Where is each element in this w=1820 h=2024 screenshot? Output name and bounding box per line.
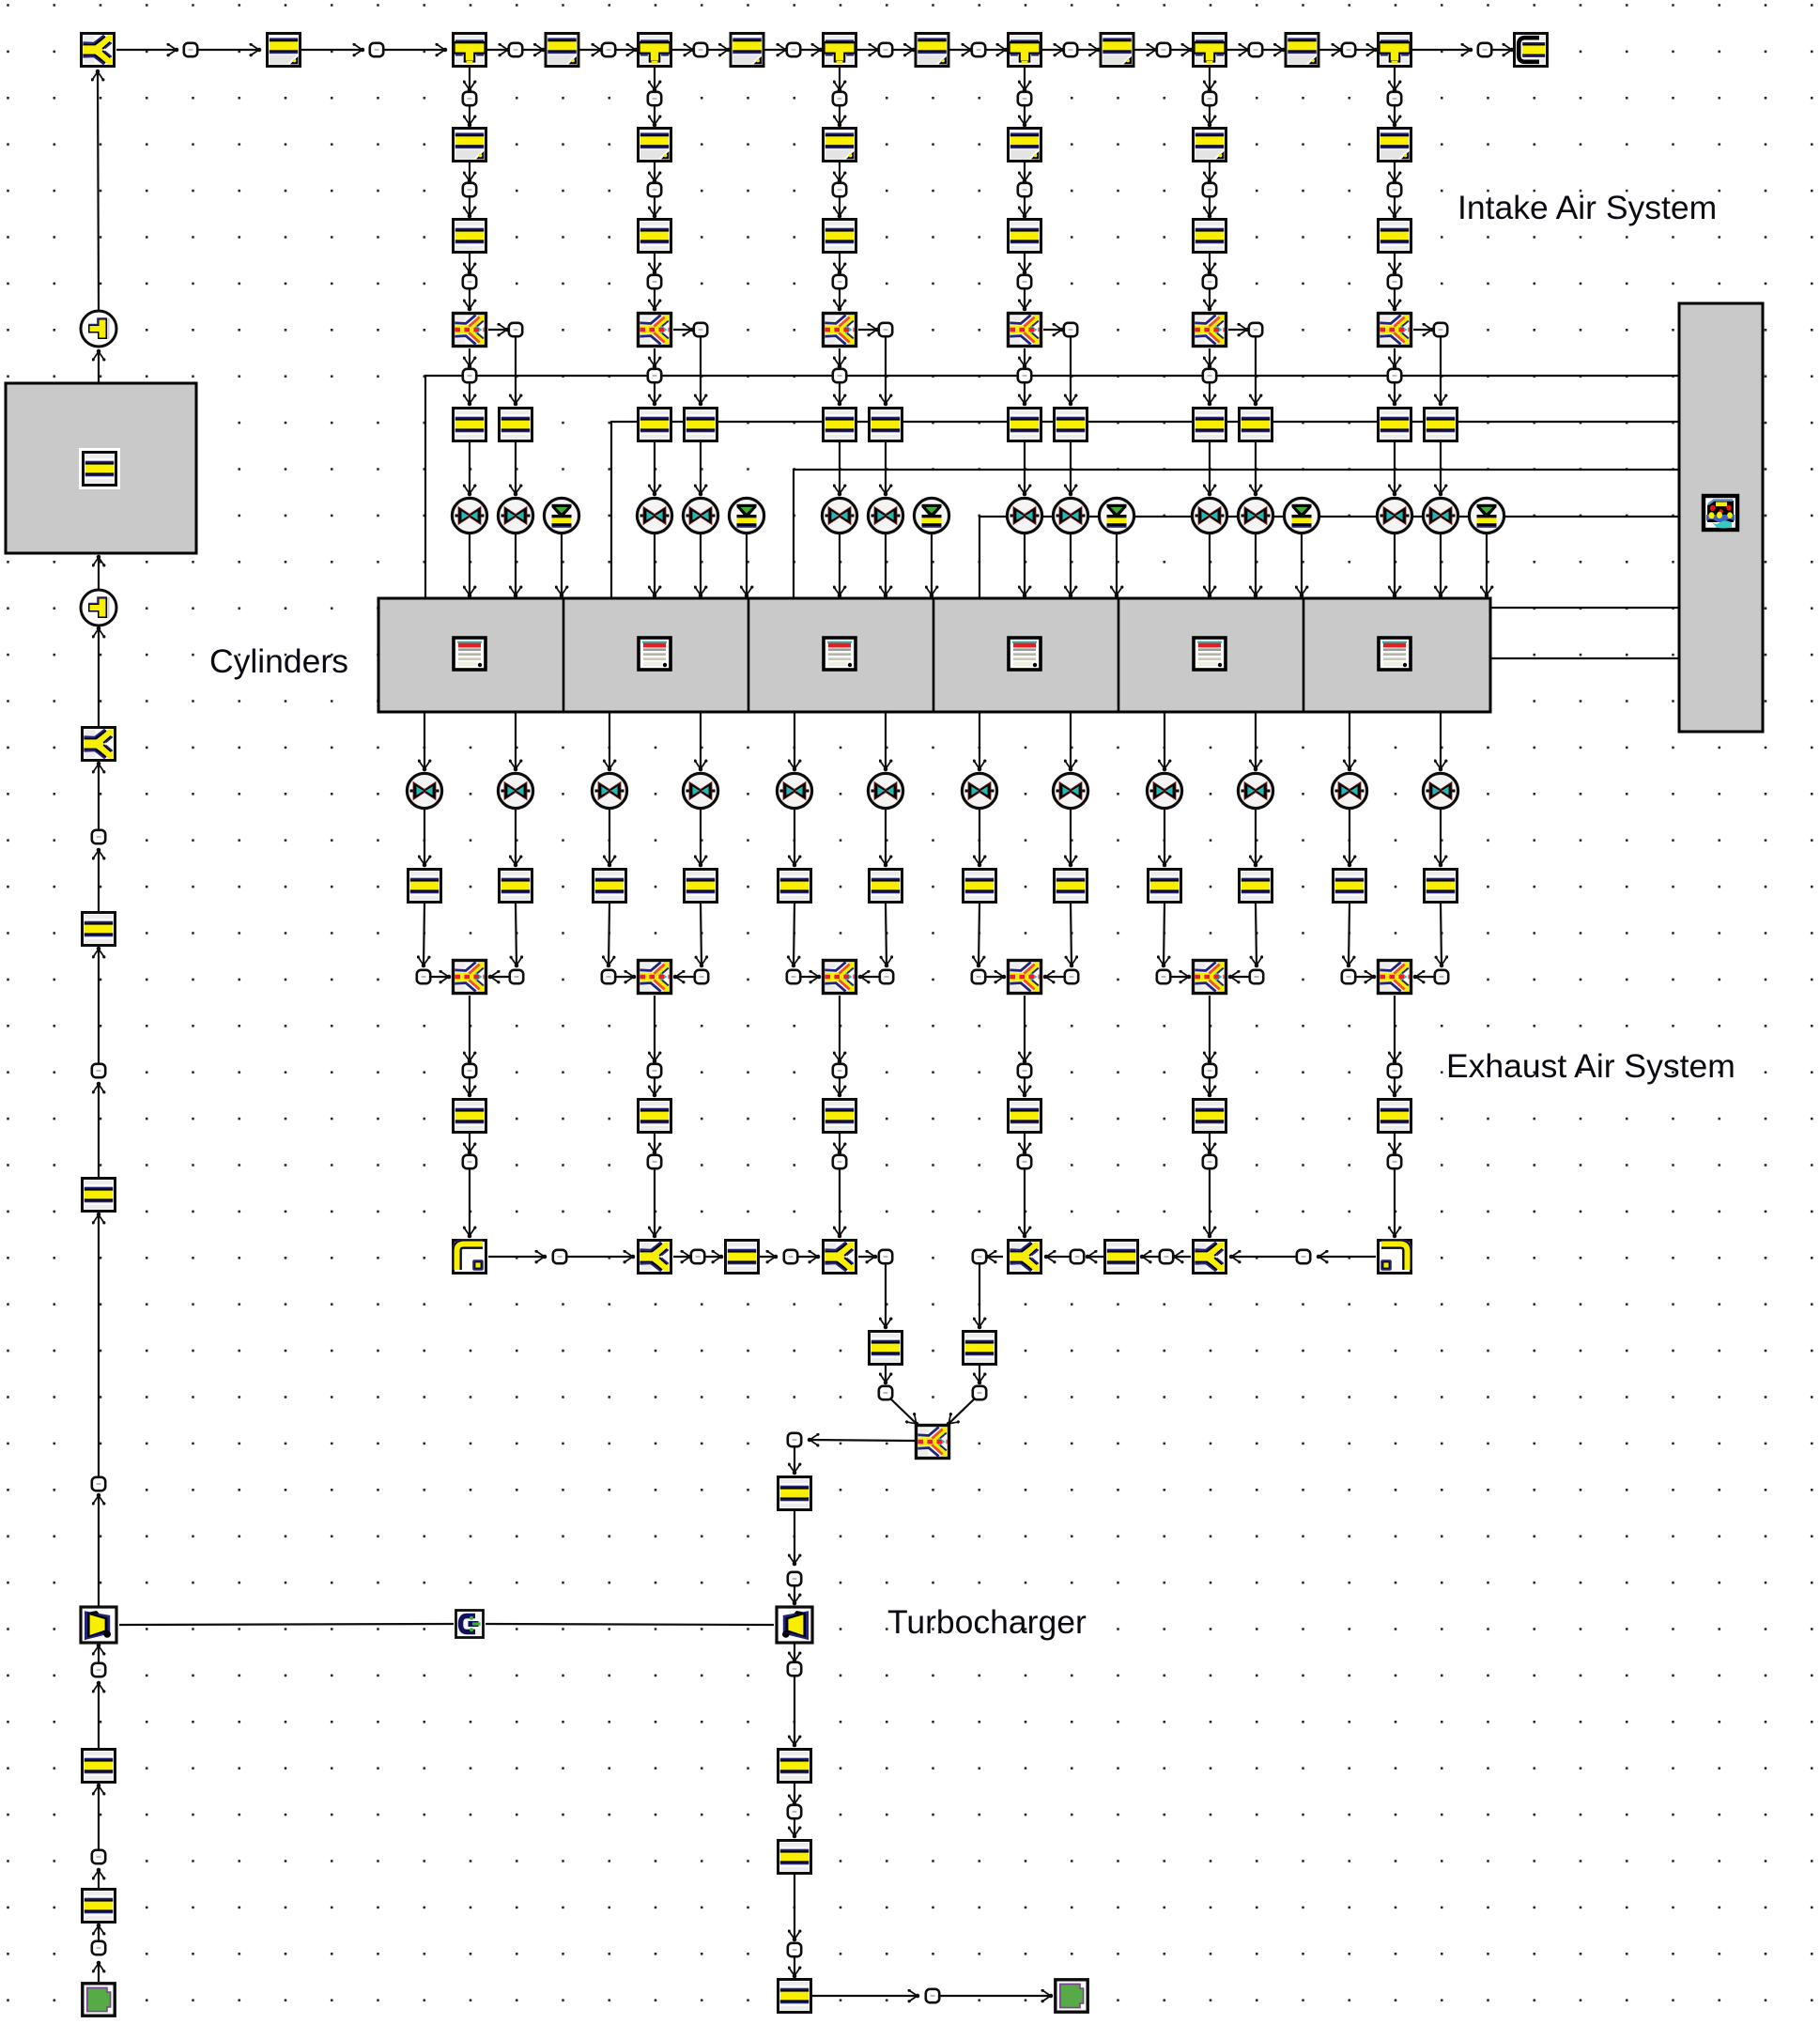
valve IV3b <box>868 498 902 533</box>
wire <box>1071 904 1072 966</box>
pipe EP5a <box>1149 870 1181 903</box>
wire <box>1209 197 1211 216</box>
wire <box>1070 534 1072 595</box>
wire <box>384 49 445 51</box>
wire <box>654 289 656 309</box>
pipe EP1c <box>454 1100 486 1133</box>
wire <box>1024 534 1026 595</box>
wire <box>986 49 1006 51</box>
wire <box>949 1398 975 1424</box>
wire <box>885 712 887 769</box>
wire <box>1394 162 1396 181</box>
flow split FS3 <box>824 314 856 347</box>
wire <box>654 383 656 404</box>
cylinder CYL3 <box>824 638 856 670</box>
pipe IP1c <box>454 409 486 441</box>
wire <box>1349 712 1350 769</box>
exhaust ambient END2 <box>1056 1980 1087 2012</box>
wire <box>1209 442 1211 494</box>
node t1b <box>602 43 615 56</box>
wire <box>1209 348 1211 366</box>
wire <box>1349 810 1350 865</box>
wire <box>794 1957 795 1976</box>
pipe LP3 <box>83 1179 116 1212</box>
valve EV3a <box>777 773 811 808</box>
node t2b <box>787 43 800 56</box>
wire <box>98 1084 100 1177</box>
intercooler block <box>6 383 196 553</box>
wire <box>469 289 470 309</box>
node c3d <box>879 323 892 336</box>
node e6d <box>1388 1155 1401 1168</box>
wire <box>858 329 877 331</box>
node t3a <box>879 43 892 56</box>
wire <box>1440 810 1442 865</box>
node e2a <box>602 970 615 983</box>
wire <box>469 348 470 366</box>
wire <box>469 383 470 404</box>
wire <box>893 49 914 51</box>
valve EV5a <box>1147 773 1181 808</box>
node c2a <box>648 92 661 105</box>
wire <box>794 712 795 769</box>
node tb2 <box>788 1572 801 1585</box>
wire <box>654 162 656 181</box>
svg-text:Intake Air System: Intake Air System <box>1458 189 1717 226</box>
wire <box>1394 442 1396 494</box>
wire <box>700 534 702 595</box>
wire <box>1209 254 1211 272</box>
wire <box>654 106 656 125</box>
injector INJ3 <box>914 498 949 533</box>
wire <box>1024 1169 1026 1236</box>
pipe IP1a <box>454 129 486 162</box>
wire <box>469 68 470 90</box>
pipe IP3d <box>870 409 902 441</box>
wire <box>794 904 794 966</box>
cylinders block <box>378 598 1490 712</box>
wire <box>798 1256 818 1258</box>
pipe EP5c <box>1194 1100 1226 1133</box>
node t3b <box>972 43 985 56</box>
flow split ES4 <box>1009 961 1041 994</box>
flow split ES6 <box>1379 961 1411 994</box>
node c3a <box>833 92 846 105</box>
wire <box>98 1214 100 1476</box>
node e3a <box>787 970 800 983</box>
wire <box>839 442 841 494</box>
wire <box>515 810 517 865</box>
wire <box>1135 49 1157 51</box>
cylinder divider 3 <box>933 598 935 712</box>
wire <box>701 904 702 966</box>
wire <box>700 442 702 494</box>
shaft bearing SH1 <box>456 1611 484 1638</box>
valve IV1b <box>498 498 532 533</box>
cylinder CYL6 <box>1379 638 1411 670</box>
node e1b <box>510 970 523 983</box>
node tb6 <box>926 1989 939 2002</box>
pipe IP6c <box>1379 409 1411 441</box>
node e3c <box>833 1064 846 1077</box>
flow split FS2 <box>639 314 671 347</box>
wire <box>1024 254 1026 272</box>
wire <box>940 1995 1051 1997</box>
pipe bend EB1 <box>454 1241 486 1274</box>
wire <box>424 810 425 865</box>
pipe P6 <box>1286 34 1319 67</box>
flow split ES2 <box>639 961 671 994</box>
node c4d <box>1064 323 1077 336</box>
node e2d <box>648 1155 661 1168</box>
wire <box>1024 1134 1026 1152</box>
flow split EY5 <box>1194 1241 1226 1274</box>
wire <box>1024 289 1026 309</box>
wire <box>98 1785 100 1849</box>
wire <box>1394 996 1396 1061</box>
wire <box>760 1256 776 1258</box>
svg-text:Exhaust Air System: Exhaust Air System <box>1446 1047 1735 1085</box>
node c6a <box>1388 92 1401 105</box>
connector CT2 <box>81 590 116 626</box>
node n3 <box>1478 43 1491 56</box>
pipe IP5c <box>1194 409 1226 441</box>
wire <box>794 1586 795 1603</box>
flow split EY3 <box>824 1241 856 1274</box>
wire <box>1441 904 1442 966</box>
wire <box>1070 810 1072 865</box>
node L1 <box>92 1941 105 1954</box>
injector INJ2 <box>729 498 763 533</box>
wire <box>654 348 656 366</box>
wire <box>673 1256 690 1258</box>
node e5d <box>1203 1155 1216 1168</box>
node e5a <box>1157 970 1170 983</box>
wire <box>609 810 610 865</box>
wire <box>1209 383 1211 404</box>
wire <box>1415 976 1434 978</box>
pipe IP3c <box>824 409 856 441</box>
pipe LP2 <box>83 1750 116 1783</box>
wire <box>1046 1256 1070 1258</box>
node c2c <box>648 275 661 288</box>
cylinder CYL5 <box>1194 638 1226 670</box>
node c4e <box>1018 369 1031 382</box>
pipe EP3a <box>779 870 811 903</box>
wire <box>1356 976 1374 978</box>
node c2e <box>648 369 661 382</box>
wire <box>986 976 1004 978</box>
pipe IP2a <box>639 129 671 162</box>
wire <box>1440 442 1442 494</box>
wire <box>469 162 470 181</box>
wire <box>561 534 563 595</box>
node b4 <box>879 1250 892 1263</box>
node c6e <box>1388 369 1401 382</box>
wire <box>1492 49 1512 51</box>
wire <box>488 1256 545 1258</box>
wire <box>469 534 470 595</box>
cylinder divider 5 <box>1303 598 1305 712</box>
wire <box>1042 49 1063 51</box>
wire <box>839 106 841 125</box>
node c3b <box>833 183 846 196</box>
valve EV4b <box>1053 773 1087 808</box>
wire <box>98 71 99 310</box>
pipe bend EB6 <box>1379 1241 1411 1274</box>
node c3e <box>833 369 846 382</box>
wire <box>98 850 100 911</box>
wire intake runner 3 <box>794 470 1679 598</box>
node e4b <box>1065 970 1078 983</box>
wire <box>885 337 887 404</box>
node tb4 <box>788 1805 801 1818</box>
cylinder divider 1 <box>563 598 565 712</box>
wire intake runner 1 <box>425 376 1679 598</box>
node c6c <box>1388 275 1401 288</box>
valve IV2b <box>683 498 717 533</box>
wire <box>860 976 879 978</box>
flow split ES5 <box>1194 961 1226 994</box>
node b5 <box>1297 1250 1310 1263</box>
wire <box>857 49 878 51</box>
wire <box>700 810 702 865</box>
wire intake runner 4 <box>979 517 1679 598</box>
pipe TP2 <box>779 1750 811 1783</box>
wire <box>705 1256 721 1258</box>
node b9 <box>879 1386 892 1399</box>
wire <box>885 442 887 494</box>
wire <box>1142 1256 1159 1258</box>
pipe P3 <box>731 34 763 67</box>
wire <box>654 442 656 494</box>
wire <box>839 289 841 309</box>
wire <box>98 764 100 829</box>
wire <box>1171 49 1191 51</box>
wire <box>1255 712 1257 769</box>
pipe IP1b <box>454 220 486 253</box>
flow split EY2 <box>639 1241 671 1274</box>
turbine TRB <box>777 1607 812 1643</box>
wire <box>1231 1256 1296 1258</box>
wire <box>1394 197 1396 216</box>
pipe IP4b <box>1009 220 1041 253</box>
end cap EC1 <box>1515 34 1548 67</box>
pipe EP5b <box>1240 870 1272 903</box>
wire <box>675 976 694 978</box>
node c2d <box>694 323 707 336</box>
wire <box>1164 904 1164 966</box>
wire <box>616 49 636 51</box>
node e6b <box>1435 970 1448 983</box>
pipe P5 <box>1101 34 1134 67</box>
wire shaft link <box>119 1624 454 1625</box>
wire <box>810 1440 915 1441</box>
flow split FS1 <box>454 314 486 347</box>
junction T3 <box>824 34 856 67</box>
wire <box>1320 49 1342 51</box>
node t4b <box>1157 43 1170 56</box>
wire <box>1116 534 1118 595</box>
node t5b <box>1342 43 1355 56</box>
pipe IP2c <box>639 409 671 441</box>
engine block <box>1679 303 1763 732</box>
cylinder divider 4 <box>1118 598 1120 712</box>
wire <box>1174 1256 1191 1258</box>
wire <box>98 1495 100 1606</box>
node e4d <box>1018 1155 1031 1168</box>
wire <box>885 1264 887 1327</box>
node t5a <box>1249 43 1262 56</box>
node c5a <box>1203 92 1216 105</box>
wire <box>1209 289 1211 309</box>
junction T6 <box>1379 34 1411 67</box>
flow split ES1 <box>454 961 486 994</box>
wire <box>1070 337 1072 404</box>
wire <box>1171 976 1189 978</box>
node e6c <box>1388 1064 1401 1077</box>
wire <box>98 1925 100 1940</box>
wire <box>523 49 544 51</box>
wire <box>98 949 100 1063</box>
wire <box>839 996 841 1061</box>
wire <box>839 68 841 90</box>
wire <box>1228 329 1247 331</box>
wire <box>765 49 787 51</box>
node b6 <box>1160 1250 1173 1263</box>
node e3d <box>833 1155 846 1168</box>
pipe IP3a <box>824 129 856 162</box>
node c6d <box>1434 323 1447 336</box>
wire <box>886 904 887 966</box>
wire <box>839 1134 841 1152</box>
wire <box>1394 1169 1396 1236</box>
wire <box>1024 383 1026 404</box>
wire <box>490 976 509 978</box>
wire <box>1043 329 1062 331</box>
node tb3 <box>788 1662 801 1676</box>
flow split FS-turbine <box>917 1426 949 1459</box>
wire <box>1413 329 1432 331</box>
svg-text:Cylinders: Cylinders <box>209 642 348 680</box>
connector CT1 <box>81 311 116 347</box>
node c6b <box>1388 183 1401 196</box>
wire <box>839 1078 841 1095</box>
wire <box>1024 442 1026 494</box>
wire <box>812 1995 918 1997</box>
wire <box>1024 106 1026 125</box>
wire <box>609 712 610 769</box>
valve IV3a <box>822 498 856 533</box>
junction T1 <box>454 34 486 67</box>
wire <box>839 1169 841 1236</box>
wire <box>116 49 177 51</box>
valve EV1a <box>407 773 441 808</box>
wire <box>794 1676 795 1745</box>
wire <box>616 976 634 978</box>
wire <box>654 996 656 1061</box>
node e2c <box>648 1064 661 1077</box>
pipe IP4a <box>1009 129 1041 162</box>
cylinder CYL4 <box>1009 638 1041 670</box>
wire <box>1230 976 1249 978</box>
wire <box>98 557 100 589</box>
node b3 <box>784 1250 797 1263</box>
flow split FS-left <box>83 728 116 761</box>
wire <box>654 1078 656 1095</box>
node t1a <box>509 43 522 56</box>
wire <box>515 712 517 769</box>
wire <box>794 1784 795 1804</box>
wire <box>1394 1134 1396 1152</box>
wire <box>469 1078 470 1095</box>
node e2b <box>695 970 708 983</box>
wire <box>424 904 424 966</box>
node e4a <box>972 970 985 983</box>
wire <box>654 1169 656 1236</box>
node L4 <box>92 1477 105 1491</box>
valve IV4b <box>1053 498 1087 533</box>
wire <box>1394 1078 1396 1095</box>
wire <box>654 197 656 216</box>
node n2 <box>370 43 383 56</box>
wire <box>1301 534 1303 595</box>
node c1e <box>463 369 476 382</box>
wire <box>979 1264 980 1327</box>
wire <box>746 534 748 595</box>
pipe P2 <box>546 34 578 67</box>
wire <box>885 1366 887 1383</box>
pipe P1 <box>268 34 301 67</box>
wire <box>654 254 656 272</box>
node c3c <box>833 275 846 288</box>
pipe IP5a <box>1194 129 1226 162</box>
pipe EP3b <box>870 870 902 903</box>
wire <box>488 329 507 331</box>
wire <box>673 329 692 331</box>
pipe EP6b <box>1425 870 1458 903</box>
wire <box>1394 534 1396 595</box>
node c2b <box>648 183 661 196</box>
pipe EP2b <box>685 870 717 903</box>
wire <box>794 1875 795 1939</box>
cylinder CYL2 <box>639 638 671 670</box>
valve IV5b <box>1238 498 1272 533</box>
wire <box>1024 996 1026 1061</box>
pipe EP6a <box>1334 870 1366 903</box>
pipe IP5b <box>1194 220 1226 253</box>
node c4a <box>1018 92 1031 105</box>
wire <box>98 351 100 383</box>
wire <box>1024 348 1026 366</box>
node b10 <box>973 1386 986 1399</box>
wire <box>1209 534 1211 595</box>
pipe TP3 <box>779 1841 811 1874</box>
wire <box>654 534 656 595</box>
node c5b <box>1203 183 1216 196</box>
wire <box>1024 197 1026 216</box>
valve IV6a <box>1377 498 1411 533</box>
wire <box>1486 534 1488 595</box>
wire <box>700 712 702 769</box>
wire <box>98 1963 100 1982</box>
pipe IP3b <box>824 220 856 253</box>
valve EV2b <box>683 773 717 808</box>
wire <box>609 904 609 966</box>
pipe IP4d <box>1055 409 1087 441</box>
pipe IP1d <box>500 409 532 441</box>
valve EV2a <box>592 773 626 808</box>
